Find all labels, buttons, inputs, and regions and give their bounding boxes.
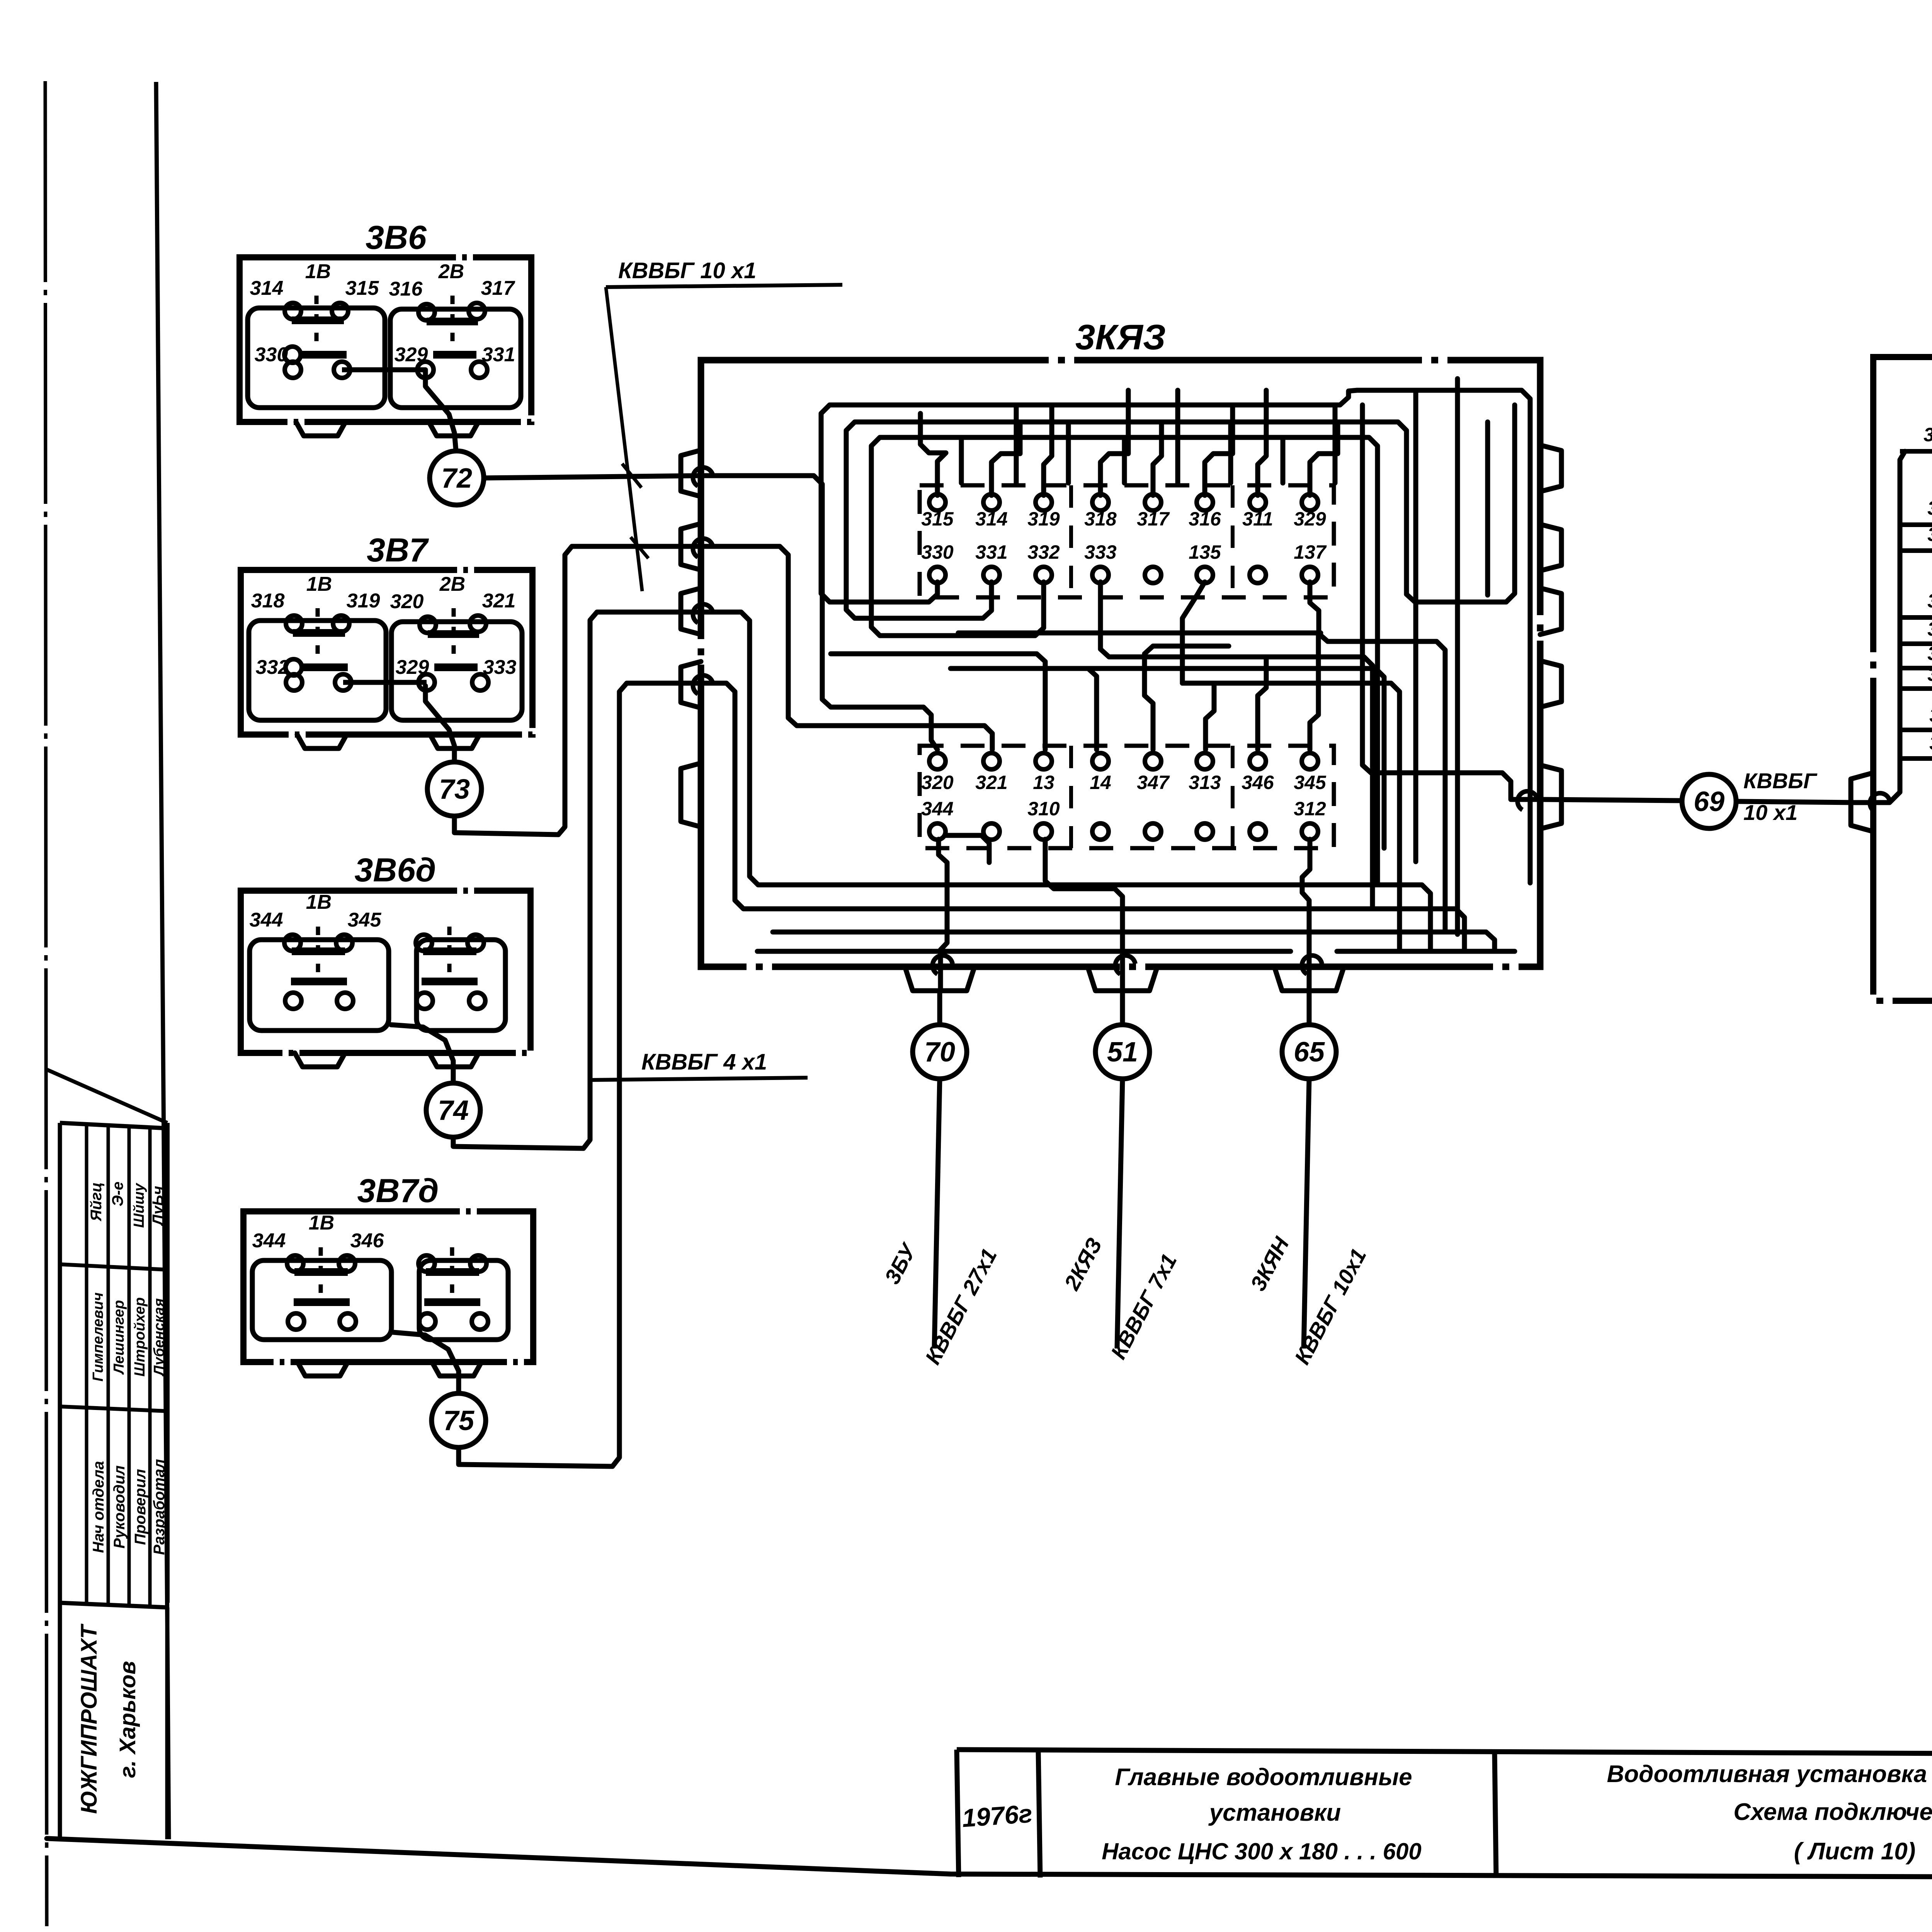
3В6д element 2 contact bars xyxy=(423,947,476,955)
svg-text:КВВБГ 4 х1: КВВБГ 4 х1 xyxy=(641,1049,767,1075)
wire segment k29 xyxy=(951,668,1384,848)
svg-text:311: 311 xyxy=(1242,508,1273,530)
svg-text:72: 72 xyxy=(441,463,472,494)
terminal 316 xyxy=(1197,494,1213,510)
wire segment k44 xyxy=(1413,390,1418,862)
wire segment k33 xyxy=(1145,646,1229,750)
3В7 element 1 dashed actuator line xyxy=(316,608,320,670)
stamp: diagonal top line xyxy=(47,1070,167,1123)
3В6д element 2 dashed actuator line xyxy=(447,927,452,983)
3КЯЗ right edge cable tabs xyxy=(1540,445,1561,492)
3В6 element 1 terminal 314 xyxy=(285,303,301,319)
wire segment k38 xyxy=(1045,839,1122,991)
svg-text:344: 344 xyxy=(252,1230,286,1252)
3В7 element 2 terminal 320 xyxy=(420,617,436,633)
terminal blank xyxy=(1092,823,1109,840)
wire segment k37 xyxy=(939,839,947,991)
svg-text:3В7д: 3В7д xyxy=(357,1172,439,1209)
connector box 3В6д: outline xyxy=(241,891,531,1053)
svg-text:2В: 2В xyxy=(439,573,465,595)
svg-text:312: 312 xyxy=(1294,798,1326,820)
svg-text:Нач отдела: Нач отдела xyxy=(90,1461,107,1553)
leader tick 2 xyxy=(631,537,648,558)
svg-text:315: 315 xyxy=(345,277,379,299)
terminal 331 xyxy=(983,567,1000,583)
3В6 element 2 contact bar top xyxy=(427,318,478,325)
3В6д element 1 outline xyxy=(250,940,389,1031)
stamp: organization cell xyxy=(58,1603,62,1839)
terminal blank xyxy=(1197,823,1213,840)
svg-text:319: 319 xyxy=(1027,508,1060,530)
terminal blank xyxy=(1250,567,1266,583)
svg-text:КВВБГ 10 х1: КВВБГ 10 х1 xyxy=(618,258,756,283)
svg-text:316: 316 xyxy=(1189,508,1221,530)
3В6д element 1 terminal 345 xyxy=(336,935,352,951)
wire segment k23 xyxy=(701,476,937,750)
cable tail below 51 xyxy=(1117,1079,1122,1349)
3В6д element 1 dashed actuator line xyxy=(316,927,320,983)
terminal blank xyxy=(1145,823,1161,840)
svg-text:344: 344 xyxy=(921,798,953,820)
svg-text:( Лист 10): ( Лист 10) xyxy=(1794,1838,1916,1865)
wire segment k19 xyxy=(1175,390,1180,483)
svg-text:313: 313 xyxy=(1189,772,1221,793)
3В6 internal jumper wire xyxy=(342,367,425,372)
cable marker circle 51 xyxy=(1095,1025,1150,1079)
wire segment k42 xyxy=(1337,949,1515,954)
terminal 315 xyxy=(929,494,946,510)
3В6 element 1 contact bar bottom xyxy=(300,351,347,359)
svg-text:320: 320 xyxy=(921,772,954,793)
svg-text:345: 345 xyxy=(348,909,382,931)
terminal 347 xyxy=(1145,753,1161,769)
3КЯЗ left edge cable tabs xyxy=(681,450,701,497)
wire segment k45 xyxy=(1455,379,1460,934)
terminal 13 xyxy=(1036,753,1052,769)
wire segment k43 xyxy=(1362,405,1540,799)
terminal 312 xyxy=(1302,823,1318,840)
svg-text:346: 346 xyxy=(350,1230,384,1252)
terminal 332 xyxy=(1036,567,1052,583)
3В7д bottom cable gland tabs xyxy=(298,1362,348,1376)
frame: bottom border line xyxy=(47,1838,1932,1879)
wire from 73 to 3КЯЗ xyxy=(454,546,701,835)
stamp: table outline xyxy=(58,1123,62,1603)
3ПЦУ cable bundle riser xyxy=(1855,451,1905,803)
svg-text:65: 65 xyxy=(1294,1037,1325,1068)
svg-text:51: 51 xyxy=(1107,1037,1138,1068)
svg-text:3В7: 3В7 xyxy=(367,532,429,569)
wire segment k3 xyxy=(871,437,1378,884)
3В7д element 2 terminals xyxy=(418,1255,435,1272)
terminal 321 xyxy=(983,753,1000,769)
svg-text:10 х1: 10 х1 xyxy=(1743,800,1798,825)
cable marker circle 65 xyxy=(1282,1025,1336,1079)
wire segment k31 xyxy=(1037,654,1045,750)
3КЯЗ bottom cable gland tabs xyxy=(905,967,975,991)
svg-text:330: 330 xyxy=(921,541,954,563)
terminal 345 xyxy=(1302,753,1318,769)
svg-text:73: 73 xyxy=(439,774,470,805)
wire segment k5 xyxy=(1182,582,1205,683)
svg-text:1В: 1В xyxy=(306,573,332,595)
3КЯЗ lower strip group dividers xyxy=(1069,746,1073,848)
3В6 element 1 dashed actuator line xyxy=(315,296,319,357)
cable tail below 70 xyxy=(934,1079,940,1349)
wire segment k34 xyxy=(1206,683,1214,750)
wire segment k13 xyxy=(1258,390,1266,495)
3В6 element 1 contact bar top xyxy=(292,316,344,324)
wire segment k28 xyxy=(831,651,1036,656)
svg-text:1В: 1В xyxy=(305,260,331,283)
title block: cell dividers xyxy=(957,1750,959,1877)
3В7 element 1 contact bar top xyxy=(293,629,345,637)
cable marker circle 74 xyxy=(391,1025,453,1083)
cable pass hooks at 3КЯЗ bottom tabs xyxy=(932,956,952,974)
svg-text:313: 313 xyxy=(1927,524,1932,545)
terminal 344 xyxy=(929,823,946,840)
3В7д element 1 terminal 344 xyxy=(287,1255,303,1272)
3КЯЗ upper strip group dividers xyxy=(1069,485,1073,597)
svg-text:13: 13 xyxy=(1033,772,1054,793)
wire segment k6 xyxy=(1310,582,1445,931)
3В7д element 1 dashed actuator line xyxy=(319,1247,323,1304)
terminal 314 xyxy=(983,494,1000,510)
svg-text:329: 329 xyxy=(1294,508,1326,530)
wire segment k22 xyxy=(1333,405,1338,483)
3В7д element 2 lower terminals xyxy=(419,1313,435,1330)
callout leader line xyxy=(606,287,642,591)
svg-text:1976г: 1976г xyxy=(961,1799,1033,1833)
wire segment k1 xyxy=(821,390,1530,883)
svg-text:Шйшу: Шйшу xyxy=(131,1182,147,1228)
svg-text:69: 69 xyxy=(1694,786,1725,817)
wire segment k14 xyxy=(1310,422,1338,495)
wire segment k27 xyxy=(958,631,1321,636)
cable marker circle 72 xyxy=(425,370,456,451)
title block: top border xyxy=(957,1750,1932,1756)
svg-text:319: 319 xyxy=(347,590,380,612)
terminal 311 xyxy=(1250,494,1266,510)
stamp: column dividers xyxy=(85,1124,88,1604)
svg-text:Разработал: Разработал xyxy=(151,1459,168,1555)
frame: left outer margin line xyxy=(45,81,47,1926)
svg-text:ЮЖГИПРОШАХТ: ЮЖГИПРОШАХТ xyxy=(77,1623,102,1814)
3В6д element 1 contact bars xyxy=(292,947,345,955)
svg-text:345: 345 xyxy=(1929,704,1932,726)
svg-text:75: 75 xyxy=(443,1405,474,1436)
frame: left inner margin line xyxy=(156,82,169,1839)
3В6д element 1 lower terminals xyxy=(285,993,301,1009)
svg-text:310: 310 xyxy=(1027,798,1060,820)
svg-text:70: 70 xyxy=(924,1037,955,1068)
svg-text:г. Харьков: г. Харьков xyxy=(115,1661,140,1778)
3В7 element 1 terminal 319 xyxy=(333,616,349,632)
svg-text:установки: установки xyxy=(1208,1799,1341,1826)
svg-text:344: 344 xyxy=(250,909,283,931)
svg-text:1В: 1В xyxy=(306,891,332,913)
svg-text:321: 321 xyxy=(482,590,516,612)
3В6д element 2 lower terminals xyxy=(417,993,433,1009)
3В6д element 2 terminals xyxy=(416,935,432,951)
svg-text:318: 318 xyxy=(1084,508,1117,530)
wire from 75 to 3КЯЗ xyxy=(459,683,701,1466)
svg-text:ЛуЬч: ЛуЬч xyxy=(150,1186,167,1226)
3В6 element 2 lower terminals xyxy=(417,362,434,378)
wire segment k40 xyxy=(773,932,1495,951)
svg-text:347: 347 xyxy=(1927,497,1932,519)
cable pass hooks at 3КЯЗ left tabs xyxy=(693,468,713,486)
3В7 bottom cable gland tabs xyxy=(297,735,347,748)
svg-text:Водоотливная установка на 3: Водоотливная установка на 3 агрегата xyxy=(1607,1761,1932,1787)
terminal blank xyxy=(1250,823,1266,840)
svg-text:316: 316 xyxy=(1927,663,1932,685)
3В6 element 2 dashed actuator line xyxy=(451,296,455,357)
terminal 135 xyxy=(1197,567,1213,583)
3В6 element 1 lower terminals xyxy=(285,362,301,378)
3В7 internal jumper wire xyxy=(343,680,427,685)
wire segment k9 xyxy=(1044,405,1052,495)
svg-text:315: 315 xyxy=(921,508,954,530)
svg-text:312: 312 xyxy=(1929,732,1932,754)
wire segment k8 xyxy=(992,422,1020,495)
terminal 317 xyxy=(1145,494,1161,510)
svg-text:346: 346 xyxy=(1242,772,1274,793)
svg-text:345: 345 xyxy=(1294,772,1327,793)
terminal 333 xyxy=(1092,567,1109,583)
3В6 element 2 terminal 317 xyxy=(469,303,485,319)
3В7д element 1 contact bars xyxy=(294,1268,348,1276)
3В7д element 2 dashed actuator line xyxy=(450,1247,454,1304)
control panel 3ПЦУ: outline xyxy=(1873,357,1932,1001)
wire 69 to 3ПЦУ xyxy=(1736,801,1855,803)
3В6 switch element 1 outline xyxy=(248,308,385,408)
svg-text:Лешингер: Лешингер xyxy=(111,1300,127,1375)
svg-text:318: 318 xyxy=(251,590,285,612)
wire segment k15 xyxy=(959,437,964,483)
svg-text:137: 137 xyxy=(1294,541,1327,563)
connector box 3В7: outline xyxy=(241,570,532,735)
3В7 element 2 contact bar bottom xyxy=(434,663,478,671)
wire 3КЯЗ to cable marker 69 xyxy=(1540,799,1682,801)
connector box 3В7д: outline xyxy=(243,1211,533,1362)
3В7д element 2 outline xyxy=(419,1260,508,1340)
3В7 element 2 contact bar top xyxy=(428,630,479,638)
svg-text:14: 14 xyxy=(1090,772,1111,793)
wire segment k35 xyxy=(1258,657,1266,750)
cable marker circle 69 xyxy=(1682,774,1736,828)
terminal 14 xyxy=(1092,753,1109,769)
wire segment k36 xyxy=(1310,633,1318,750)
svg-text:318: 318 xyxy=(1927,618,1932,640)
wire segment k11 xyxy=(1153,422,1162,495)
3КЯЗ lower terminal strip dashed box xyxy=(920,746,1334,848)
3В7д element 1 lower terminals xyxy=(288,1313,304,1330)
cable stem to marker 51 xyxy=(1120,991,1125,1025)
terminal 320 xyxy=(929,753,946,769)
hook at right exit xyxy=(1517,791,1537,810)
3В7д element 1 outline xyxy=(252,1260,391,1340)
svg-text:331: 331 xyxy=(482,344,515,366)
connector box 3В6: outline xyxy=(240,257,531,422)
svg-text:Проверил: Проверил xyxy=(132,1469,149,1545)
svg-text:346: 346 xyxy=(1927,590,1932,612)
3В6 element 2 contact bar bottom xyxy=(433,351,476,359)
3В6 element 1 terminal 315 xyxy=(332,303,348,319)
terminal blank xyxy=(1145,567,1161,583)
3В6 switch element 2 outline xyxy=(390,309,521,408)
svg-text:314: 314 xyxy=(1927,643,1932,664)
svg-text:Яйгц: Яйгц xyxy=(88,1182,105,1222)
cable marker circle 70 xyxy=(913,1025,967,1079)
terminal blank xyxy=(983,823,1000,840)
wire segment k7 xyxy=(920,413,946,495)
3В7 switch element 1 outline xyxy=(249,621,386,720)
3КЯЗ upper terminal strip dashed box xyxy=(920,485,1334,597)
svg-text:Э-е: Э-е xyxy=(109,1182,126,1206)
wire segment k48 xyxy=(945,835,989,862)
wire segment k18 xyxy=(1122,437,1127,483)
svg-text:Схема подключения: Схема подключения xyxy=(1733,1799,1932,1825)
wire segment k25 xyxy=(701,612,1430,951)
svg-text:333: 333 xyxy=(1084,541,1117,563)
svg-text:332: 332 xyxy=(1027,541,1060,563)
svg-text:Насос ЦНС 300 х 180 . . .: Насос ЦНС 300 х 180 . . . 600 xyxy=(1102,1838,1422,1864)
wire segment k24 xyxy=(701,546,992,750)
wire segment k21 xyxy=(1281,437,1286,483)
svg-text:320: 320 xyxy=(1923,424,1932,446)
wire segment k12 xyxy=(1205,405,1233,495)
wire segment k47 xyxy=(1406,405,1515,602)
svg-text:3КЯЗ: 3КЯЗ xyxy=(1075,318,1166,357)
wire from 74 to 3КЯЗ xyxy=(453,612,701,1148)
svg-text:316: 316 xyxy=(389,278,423,300)
wire segment k41 xyxy=(757,949,1291,954)
3В6 element 2 terminal 316 xyxy=(418,304,435,320)
svg-text:Гимпелевич: Гимпелевич xyxy=(90,1293,106,1382)
svg-text:КВВБГ: КВВБГ xyxy=(1743,769,1818,793)
3ПЦУ left cable entry tab xyxy=(1851,773,1873,832)
3В7 element 2 lower terminals xyxy=(418,674,435,690)
3В7д element 2 contact bars xyxy=(426,1268,479,1276)
terminal 318 xyxy=(1092,494,1109,510)
3В7 element 1 contact bar bottom xyxy=(301,663,348,671)
junction box 3КЯЗ: outline xyxy=(701,360,1540,967)
svg-text:320: 320 xyxy=(390,590,424,613)
svg-text:317: 317 xyxy=(481,277,515,299)
wire segment k17 xyxy=(1066,422,1071,483)
wire segment k30 xyxy=(1182,683,1400,951)
3В6 bottom cable gland tabs xyxy=(296,422,345,436)
wire segment k16 xyxy=(1014,405,1019,483)
wire segment k46 xyxy=(1485,422,1490,595)
wire segment k26 xyxy=(701,683,1464,951)
3В7 element 1 terminal 318 xyxy=(286,616,302,632)
terminal 313 xyxy=(1197,753,1213,769)
svg-text:331: 331 xyxy=(975,541,1007,563)
svg-text:3В6д: 3В6д xyxy=(355,852,436,889)
terminal 346 xyxy=(1250,753,1266,769)
svg-text:2В: 2В xyxy=(438,260,464,283)
wire segment k20 xyxy=(1228,422,1233,483)
3В6д bottom cable gland tabs xyxy=(295,1053,345,1067)
cable stem to marker 70 xyxy=(937,991,942,1025)
svg-text:1В: 1В xyxy=(309,1212,334,1234)
cable marker circle 73 xyxy=(425,686,454,762)
3В6д element 1 terminal 344 xyxy=(284,935,301,951)
svg-text:317: 317 xyxy=(1137,508,1170,530)
svg-text:Главные водоотливные: Главные водоотливные xyxy=(1115,1764,1412,1791)
3В6д element 2 outline xyxy=(417,940,505,1031)
cable marker circle 75 xyxy=(393,1332,459,1393)
3В7 element 2 terminal 321 xyxy=(470,616,486,632)
cable stem to marker 65 xyxy=(1307,991,1312,1025)
wire from 72 to 3КЯЗ xyxy=(484,476,701,478)
svg-text:333: 333 xyxy=(483,656,517,679)
3В7 element 1 lower terminals xyxy=(286,674,302,690)
wire segment k10 xyxy=(1100,390,1128,495)
svg-text:321: 321 xyxy=(975,772,1007,793)
svg-text:Штройхер: Штройхер xyxy=(132,1297,148,1376)
svg-text:74: 74 xyxy=(438,1095,469,1126)
wire segment k2 xyxy=(846,422,1406,618)
svg-text:135: 135 xyxy=(1189,541,1221,563)
svg-text:3В6: 3В6 xyxy=(366,219,427,256)
svg-text:347: 347 xyxy=(1137,772,1170,793)
3В7д element 1 terminal 346 xyxy=(339,1255,355,1272)
terminal 137 xyxy=(1302,567,1318,583)
3В7 switch element 2 outline xyxy=(391,622,522,720)
svg-text:314: 314 xyxy=(975,508,1007,530)
wire segment k39 xyxy=(1302,839,1310,991)
terminal 329 xyxy=(1302,494,1318,510)
3В7 element 2 dashed actuator line xyxy=(452,608,456,670)
svg-text:Лубенская: Лубенская xyxy=(151,1298,167,1377)
wire segment k4 xyxy=(1100,582,1372,908)
terminal 330 xyxy=(929,567,946,583)
terminal 310 xyxy=(1036,823,1052,840)
cable tail below 65 xyxy=(1304,1079,1309,1349)
terminal 319 xyxy=(1036,494,1052,510)
wire segment k32 xyxy=(1088,668,1097,750)
svg-text:314: 314 xyxy=(250,277,284,299)
svg-text:Руководил: Руководил xyxy=(111,1465,128,1548)
